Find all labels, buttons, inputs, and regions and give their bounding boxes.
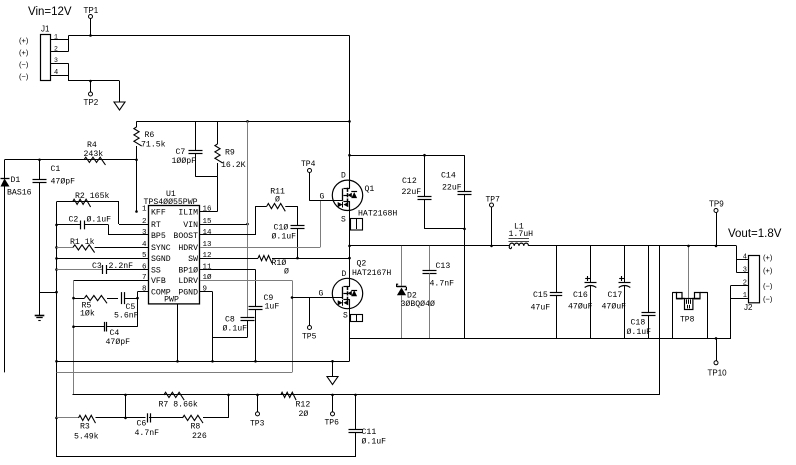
svg-text:TP4: TP4 (301, 160, 316, 169)
capacitor C9 1uF (249, 294, 280, 361)
wire VIN stub (200, 223, 249, 226)
svg-text:2: 2 (142, 218, 147, 226)
svg-text:R6: R6 (145, 131, 155, 140)
test point TP9 (709, 200, 724, 248)
capacitor C13 4.7nF (423, 246, 455, 339)
capacitor C8 0.1uF (213, 316, 255, 338)
test point TP3 (250, 395, 265, 429)
svg-text:Ø.1uF: Ø.1uF (87, 215, 112, 225)
svg-text:16.2K: 16.2K (221, 161, 246, 170)
net label Vin=12V (28, 6, 72, 18)
U1 pin 4 SYNC (142, 241, 171, 253)
svg-text:71.5k: 71.5k (141, 140, 166, 150)
svg-text:(−): (−) (763, 294, 773, 303)
svg-text:TP9: TP9 (709, 200, 724, 209)
svg-text:R12: R12 (296, 401, 311, 410)
svg-text:TP3: TP3 (250, 420, 265, 429)
wire Q1 drain rail to C12/C14 (350, 154, 465, 157)
U1 pin 3 BP5 (142, 229, 166, 241)
test point TP2 (84, 80, 99, 107)
wire C1 gnd jog (40, 291, 58, 294)
svg-text:8: 8 (142, 285, 147, 293)
svg-text:KFF: KFF (151, 208, 166, 217)
test point TP10 (708, 337, 728, 377)
wire VIN rail vertical (247, 121, 249, 318)
wire SW node to L1 and Vout (350, 245, 737, 247)
svg-text:(−): (−) (19, 72, 29, 81)
wire BOOST to R11 (200, 206, 256, 235)
capacitor C7 100pF (172, 121, 203, 176)
test point TP8 (673, 245, 708, 339)
svg-text:TP5: TP5 (302, 333, 317, 342)
svg-text:C14: C14 (441, 171, 456, 180)
J2 pin numbers (743, 254, 747, 301)
svg-text:7: 7 (142, 274, 147, 282)
svg-text:BAS16: BAS16 (7, 189, 32, 198)
svg-text:1Øk: 1Øk (80, 308, 95, 318)
diode D2 30BQ040 (397, 246, 435, 339)
svg-text:226: 226 (192, 432, 207, 441)
wire HDRV to Q1 gate (200, 201, 343, 248)
J1 pin 2 (50, 45, 69, 52)
svg-text:C6: C6 (137, 420, 147, 429)
svg-text:R3: R3 (80, 423, 90, 432)
svg-text:S: S (343, 312, 348, 321)
resistor R9 16.2K (215, 121, 246, 176)
svg-text:2: 2 (743, 279, 747, 287)
svg-text:C13: C13 (436, 262, 451, 271)
svg-text:R9: R9 (225, 149, 235, 158)
svg-text:Q1: Q1 (365, 185, 375, 194)
svg-text:ILIM: ILIM (178, 208, 198, 217)
resistor R1 1k (57, 237, 150, 253)
svg-text:HDRV: HDRV (178, 244, 198, 253)
svg-text:HAT2168H: HAT2168H (358, 210, 397, 219)
Q1 source package pads (351, 219, 363, 231)
svg-text:1uF: 1uF (265, 303, 280, 312)
U1 pin 5 SGND (142, 252, 171, 264)
svg-text:SS: SS (151, 266, 161, 275)
svg-text:C8: C8 (225, 316, 235, 325)
resistor R10 0 on SW (200, 256, 351, 277)
svg-text:R4: R4 (87, 141, 97, 150)
J1 pin 3 (50, 57, 69, 64)
svg-text:(+): (+) (19, 36, 29, 45)
resistor R2 165k (57, 191, 120, 224)
J1 pin 4 (50, 69, 69, 77)
svg-text:D1: D1 (11, 176, 21, 185)
U1 pin 14 BOOST (173, 229, 212, 241)
wire Vout sense to R12 line (659, 246, 661, 395)
U1 pin 12 SW (188, 252, 211, 264)
svg-text:5: 5 (142, 252, 147, 260)
diode D1 BAS16 (1, 160, 32, 373)
wire SGND line (57, 258, 150, 260)
U1 pin 7 VFB (142, 274, 166, 286)
svg-text:R8: R8 (191, 423, 201, 432)
svg-text:R7 8.66k: R7 8.66k (159, 400, 198, 410)
svg-text:J1: J1 (41, 25, 50, 34)
wire Q1 source to SW node (348, 210, 351, 278)
svg-text:TP10: TP10 (708, 369, 728, 378)
svg-text:1: 1 (142, 205, 147, 213)
wire BP10 to C9 (200, 270, 256, 307)
U1 pin 16 ILIM (178, 205, 212, 217)
svg-text:Q2: Q2 (357, 260, 367, 269)
resistor R5 10k (74, 296, 119, 319)
svg-text:(+): (+) (19, 48, 29, 57)
test point TP4 (301, 160, 316, 201)
svg-text:47ØuF: 47ØuF (602, 302, 627, 312)
svg-text:4: 4 (142, 241, 147, 249)
svg-text:47ØuF: 47ØuF (568, 302, 593, 312)
wire Vin bus corner down to Q1 drain (348, 36, 351, 181)
wire PGND down (200, 292, 214, 363)
test point TP6 (325, 395, 340, 428)
svg-text:HAT2167H: HAT2167H (352, 269, 391, 278)
wire output ground bus (350, 338, 732, 340)
svg-text:47uF: 47uF (531, 304, 551, 313)
svg-text:Ø.1uF: Ø.1uF (272, 232, 297, 242)
svg-text:2Ø: 2Ø (299, 409, 309, 419)
wire LDRV to Q2 gate and D1 (57, 280, 343, 372)
svg-text:SW: SW (188, 255, 198, 264)
svg-text:VIN: VIN (183, 221, 198, 230)
svg-text:1ØØpF: 1ØØpF (172, 156, 197, 166)
capacitor C11 0.1uF (349, 395, 387, 457)
wire VIN bus (137, 120, 351, 123)
wire left rail (55, 202, 58, 457)
U1 pin 6 SS (142, 263, 161, 275)
U1 pin 15 VIN (183, 218, 212, 230)
net label Vout=1.8V (728, 228, 782, 240)
svg-text:LDRV: LDRV (178, 277, 198, 286)
svg-text:RT: RT (151, 221, 161, 230)
svg-text:BP5: BP5 (151, 232, 166, 241)
capacitor C1 470pF (33, 160, 76, 316)
svg-text:Vin=12V: Vin=12V (28, 6, 72, 18)
U1 pin 13 HDRV (178, 241, 212, 253)
U1 pin 10 LDRV (178, 273, 212, 286)
svg-text:C3: C3 (92, 262, 102, 271)
svg-text:TP1: TP1 (84, 6, 99, 15)
wire Q2 source to ground buses (349, 309, 351, 362)
capacitor C10 0.1uF (272, 206, 305, 259)
svg-text:4.7nF: 4.7nF (135, 429, 160, 438)
wire J1 pins 1-2 to Vin bus (68, 36, 70, 52)
svg-text:47ØpF: 47ØpF (106, 337, 131, 347)
svg-text:TP8: TP8 (680, 316, 695, 325)
capacitor C2 0.1uF (57, 215, 112, 230)
svg-text:C12: C12 (402, 177, 417, 186)
test point TP1 (84, 6, 99, 37)
svg-text:C18: C18 (631, 319, 646, 328)
svg-text:C11: C11 (362, 428, 377, 437)
transistor Q1 HAT2168H (320, 172, 398, 225)
svg-text:BP1Ø: BP1Ø (178, 265, 198, 275)
connector J2 (744, 256, 760, 313)
svg-text:SGND: SGND (151, 255, 171, 264)
wire VFB stub (74, 280, 150, 282)
svg-text:4: 4 (743, 254, 747, 262)
wire PWP pad to gnd (176, 304, 179, 363)
wire KFF feed line (5, 159, 137, 162)
capacitor C5 5.6nF (114, 292, 139, 320)
wire bottom bus (57, 456, 356, 458)
ground symbol C1 (35, 316, 45, 321)
wire C7/R9 to ILIM (196, 177, 218, 212)
svg-text:TP2: TP2 (84, 98, 99, 107)
capacitor C16 470uF (568, 246, 597, 339)
svg-text:Ø.1uF: Ø.1uF (223, 324, 248, 334)
svg-text:4.7nF: 4.7nF (430, 280, 455, 289)
svg-text:D: D (342, 270, 347, 279)
wire COMP to feedback (136, 292, 149, 327)
Q2 source package pads (351, 315, 363, 322)
wire RT stub (119, 224, 149, 226)
svg-text:C7: C7 (176, 148, 186, 157)
U1 pin 11 BP10 (178, 263, 212, 275)
capacitor C18 0.1uF (627, 246, 656, 339)
capacitor C14 22uF (441, 155, 472, 338)
svg-text:C17: C17 (608, 291, 623, 300)
svg-text:R2 165k: R2 165k (75, 191, 109, 201)
U1 pin 2 RT (142, 218, 161, 230)
resistor R4 243k (84, 141, 106, 165)
resistor R6 71.5k (134, 121, 166, 212)
svg-text:R1Ø: R1Ø (272, 258, 287, 268)
capacitor C17 470uF (602, 246, 631, 339)
svg-text:47ØpF: 47ØpF (51, 177, 76, 187)
svg-text:Ø.1uF: Ø.1uF (362, 437, 387, 447)
wire C2 to BP5 (109, 225, 150, 235)
capacitor C4 470pF (74, 322, 138, 347)
U1 pin 9 PGND (178, 285, 207, 297)
svg-text:C15: C15 (533, 291, 548, 300)
svg-text:C16: C16 (573, 291, 588, 300)
U1 pin 8 COMP (142, 285, 171, 297)
svg-text:11: 11 (203, 263, 213, 271)
resistor R11 0 (256, 188, 298, 212)
test point TP7 (486, 196, 501, 248)
svg-text:J2: J2 (744, 303, 753, 312)
svg-text:4: 4 (54, 69, 58, 77)
svg-text:22uF: 22uF (402, 188, 422, 197)
svg-text:5.49k: 5.49k (74, 432, 99, 442)
svg-text:14: 14 (203, 229, 213, 237)
IC U1 TPS40055PWP body (144, 190, 200, 305)
svg-text:22uF: 22uF (442, 183, 462, 192)
resistor R7 8.66k (159, 392, 198, 409)
svg-text:G: G (320, 193, 325, 202)
wire Vin top bus (69, 35, 350, 37)
svg-text:C2: C2 (69, 216, 79, 225)
svg-text:3: 3 (54, 57, 58, 64)
wire left ground bus (57, 360, 350, 363)
capacitor C15 47uF (531, 246, 563, 339)
svg-text:COMP: COMP (151, 288, 171, 297)
svg-text:C1Ø: C1Ø (274, 223, 289, 233)
J2 polarity labels (763, 253, 773, 303)
svg-text:C1: C1 (51, 165, 61, 174)
wire feedback box left (72, 280, 75, 395)
svg-text:PGND: PGND (178, 288, 198, 297)
capacitor C12 22uF (402, 155, 465, 229)
wire J2 pins 2-1 to ground (731, 285, 749, 338)
svg-text:3: 3 (142, 229, 147, 237)
svg-text:C4: C4 (110, 329, 120, 338)
wire Vout to J2 pins 4-3 (737, 246, 749, 273)
svg-text:2.2nF: 2.2nF (109, 262, 134, 271)
svg-text:D: D (341, 172, 346, 181)
svg-text:SYNC: SYNC (151, 244, 171, 253)
ground symbol below J1 (114, 81, 125, 110)
wire J1 pins 3-4 to gnd (69, 63, 120, 81)
svg-text:S: S (341, 216, 346, 225)
svg-text:2: 2 (54, 45, 58, 52)
svg-text:Ø: Ø (284, 267, 289, 277)
svg-text:R1 1k: R1 1k (70, 237, 95, 247)
svg-text:(−): (−) (19, 60, 29, 69)
wire R3 line (57, 395, 229, 419)
resistor R12 20 (281, 392, 311, 419)
connector J1 (41, 25, 51, 81)
svg-text:Vout=1.8V: Vout=1.8V (728, 228, 782, 240)
svg-text:1.7uH: 1.7uH (509, 230, 534, 239)
svg-text:3: 3 (743, 266, 747, 274)
wire ILIM stub (200, 211, 218, 213)
svg-text:TP6: TP6 (325, 419, 340, 428)
svg-text:5.6nF: 5.6nF (114, 312, 139, 321)
test point TP5 (302, 298, 317, 342)
J1 polarity labels (19, 36, 29, 81)
U1 pin 1 KFF (142, 205, 166, 217)
svg-text:(−): (−) (763, 281, 773, 290)
svg-text:(+): (+) (763, 253, 773, 262)
resistor R8 226 (183, 415, 207, 441)
ground symbol mid (327, 361, 338, 384)
svg-text:Ø.1uF: Ø.1uF (627, 327, 652, 337)
svg-text:9: 9 (203, 285, 208, 293)
svg-text:(+): (+) (763, 266, 773, 275)
svg-text:6: 6 (142, 263, 147, 271)
svg-text:TPS4ØØ55PWP: TPS4ØØ55PWP (144, 197, 198, 207)
svg-text:G: G (319, 290, 324, 299)
resistor R3 5.49k (74, 415, 99, 441)
svg-text:VFB: VFB (151, 277, 166, 286)
J1 pin 1 (50, 34, 69, 41)
inductor L1 1.7uH (509, 223, 534, 249)
svg-text:1: 1 (54, 34, 58, 41)
svg-text:243k: 243k (84, 149, 104, 159)
capacitor C6 4.7nF (135, 413, 160, 438)
svg-text:Ø: Ø (275, 195, 280, 205)
wire R7 line (73, 394, 660, 397)
capacitor C3 2.2nF (57, 262, 150, 274)
svg-text:BOOST: BOOST (173, 232, 198, 241)
svg-text:16: 16 (203, 205, 213, 213)
transistor Q2 HAT2167H (319, 260, 392, 321)
